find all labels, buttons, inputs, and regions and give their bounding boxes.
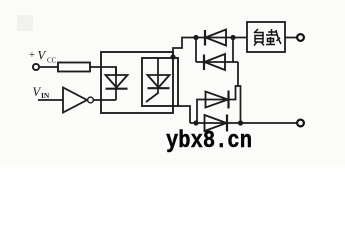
svg-text:+: + bbox=[29, 50, 35, 61]
wire optocoupler cathode to bottom rail bbox=[178, 106, 190, 123]
wire left column D1 to D2 bbox=[195, 38, 197, 63]
diode D3 (pointing right) bbox=[197, 86, 238, 123]
node A (bridge top-left junction) bbox=[193, 35, 198, 40]
wire Vcc terminal to resistor bbox=[40, 66, 59, 68]
load box (fu zai) bbox=[247, 22, 285, 52]
load label glyph FU bbox=[254, 29, 264, 46]
resistor R1 bbox=[58, 63, 90, 72]
wire optocoupler anode staircase to bridge node bbox=[173, 38, 196, 58]
node B (D1 right junction) bbox=[230, 35, 235, 40]
wire right column D1 to D2 bbox=[232, 38, 234, 63]
wire Vin to inverter input bbox=[38, 99, 63, 101]
wire right column D2 down to bottom-right node bbox=[238, 62, 241, 123]
label Vin bbox=[33, 85, 50, 100]
diode D2 (pointing left) bbox=[196, 54, 238, 70]
junction dot at optocoupler anode bbox=[170, 54, 175, 59]
inverter U1 bbox=[63, 88, 93, 113]
diode D1 (top, pointing left) bbox=[196, 30, 247, 46]
photothyristor (light triggered SCR) bbox=[146, 58, 170, 102]
terminal (top output) bbox=[297, 34, 304, 41]
diode D4 (bottom, pointing right) bbox=[205, 115, 228, 132]
wire load box to top terminal bbox=[285, 37, 297, 39]
svg-text:ybx8.cn: ybx8.cn bbox=[166, 128, 252, 155]
faint scan smudge top-left bbox=[17, 15, 33, 31]
background paper bbox=[0, 0, 345, 167]
label +Vcc bbox=[29, 49, 57, 65]
node C (bottom-left junction) bbox=[193, 120, 198, 125]
wire resistor to LED anode bbox=[90, 67, 116, 76]
photothyristor inner box bbox=[142, 58, 178, 106]
terminal (+Vcc input) bbox=[33, 64, 39, 70]
node D (bottom-right junction) bbox=[238, 120, 243, 125]
optocoupler outer box U2 bbox=[101, 52, 173, 113]
wire inverter output to LED cathode bbox=[94, 99, 117, 101]
LED inside optocoupler bbox=[106, 67, 128, 100]
terminal (bottom output) bbox=[297, 120, 304, 127]
bottom rail wire bbox=[190, 122, 297, 124]
svg-text:IN: IN bbox=[41, 91, 50, 100]
svg-text:CC: CC bbox=[47, 57, 57, 65]
load label glyph ZAI bbox=[266, 29, 281, 45]
